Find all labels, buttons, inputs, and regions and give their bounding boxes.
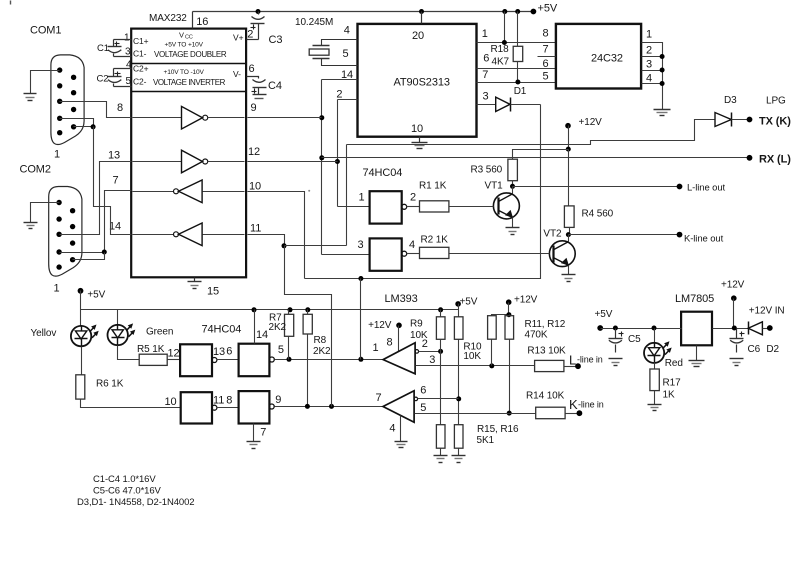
svg-text:V: V xyxy=(179,31,184,40)
svg-text:+10V TO -10V: +10V TO -10V xyxy=(164,69,205,76)
svg-text:1: 1 xyxy=(482,28,488,40)
wire C3 to V+ xyxy=(247,39,259,41)
terminal +12V LM393 xyxy=(396,323,402,329)
svg-text:C1: C1 xyxy=(97,43,109,54)
capacitor C1 xyxy=(113,40,115,47)
svg-text:6: 6 xyxy=(226,346,232,358)
ground C6 xyxy=(730,358,744,360)
svg-text:L: L xyxy=(569,353,576,368)
op LM7805 box xyxy=(681,312,712,346)
wire R3 bottom xyxy=(512,181,514,187)
wire LED green to R5 xyxy=(118,346,140,360)
svg-text:R2 1K: R2 1K xyxy=(421,235,449,246)
wire pin11 net to TX drop xyxy=(285,245,347,247)
svg-text:10K: 10K xyxy=(463,351,481,362)
ground LM7805 xyxy=(689,360,705,362)
COM1 pins xyxy=(57,67,62,72)
svg-text:2: 2 xyxy=(247,29,253,41)
wire D3 to TX xyxy=(732,119,750,121)
wire LED to R17 xyxy=(654,363,656,369)
wire pin6 row xyxy=(477,68,556,70)
svg-text:3: 3 xyxy=(429,354,435,366)
junction R9 top xyxy=(438,307,443,312)
terminal +5V right xyxy=(597,325,603,331)
svg-text:R11, R12: R11, R12 xyxy=(525,319,566,330)
terminal +5V top xyxy=(531,9,537,15)
svg-text:+12V IN: +12V IN xyxy=(749,306,785,317)
svg-text:R17: R17 xyxy=(663,378,682,389)
wire pin2 row xyxy=(338,99,358,101)
svg-text:R8: R8 xyxy=(314,335,327,346)
wire gateA to gateB xyxy=(217,359,239,361)
junction R7 bottom xyxy=(287,357,292,362)
wire pin10 net to LM393 out1 xyxy=(360,279,362,360)
junction C5 xyxy=(613,326,618,331)
wire R13 to L terminal xyxy=(564,366,579,368)
svg-text:V+: V+ xyxy=(233,33,244,43)
svg-text:R14 10K: R14 10K xyxy=(526,391,565,402)
svg-text:10: 10 xyxy=(249,181,261,193)
svg-text:14: 14 xyxy=(341,69,353,81)
svg-text:8: 8 xyxy=(387,337,393,349)
svg-text:7: 7 xyxy=(113,175,119,187)
svg-text:Yellov: Yellov xyxy=(31,328,57,339)
wire LM393 pin4 stem xyxy=(400,416,402,442)
svg-text:3: 3 xyxy=(646,59,652,71)
junction 24C32 pin3 xyxy=(660,68,665,73)
svg-text:8: 8 xyxy=(226,395,232,407)
wire R14 to K terminal xyxy=(566,413,580,415)
ground AT90 pin10 xyxy=(412,142,428,144)
buffer T1 (8->9) xyxy=(133,117,182,119)
transistor VT1 xyxy=(493,193,519,219)
wire RX row xyxy=(322,157,750,159)
ground R17 xyxy=(648,404,662,406)
wire COM2 gnd xyxy=(31,203,60,223)
ground MAX232 pin15 xyxy=(188,281,202,283)
terminal K-line out xyxy=(677,232,683,238)
resistor R16 xyxy=(454,425,463,449)
svg-text:4: 4 xyxy=(646,73,652,85)
wire R8 stubs xyxy=(307,310,309,315)
junction pin11 net xyxy=(282,243,287,248)
svg-text:+5V: +5V xyxy=(460,296,478,307)
svg-text:COM1: COM1 xyxy=(30,25,61,37)
gate A box xyxy=(180,344,212,376)
svg-text:3: 3 xyxy=(125,47,131,58)
wire R9R15 column xyxy=(440,352,442,425)
wire pin2 row xyxy=(419,351,441,353)
svg-text:Red: Red xyxy=(665,358,683,369)
wire +5V top rail xyxy=(193,11,534,13)
gate D bubble xyxy=(269,404,274,409)
svg-text:20: 20 xyxy=(412,30,424,42)
svg-text:10.245M: 10.245M xyxy=(295,17,333,28)
wire VT2 collector stem xyxy=(568,235,570,242)
svg-text:1: 1 xyxy=(124,33,130,44)
wire pin7 drop to COM2 right xyxy=(73,253,105,260)
junction R4 VT2 xyxy=(566,232,571,237)
svg-text:+12V: +12V xyxy=(721,280,745,291)
svg-text:MAX232: MAX232 xyxy=(149,13,187,24)
svg-text:5: 5 xyxy=(343,48,349,60)
junction AT90 pin20 on rail xyxy=(419,9,424,14)
svg-text:K: K xyxy=(569,397,578,412)
resistor R4 xyxy=(564,206,574,228)
wire pin9 row xyxy=(248,117,322,119)
wire gate3 input xyxy=(322,254,370,256)
junction R7 top xyxy=(288,307,293,312)
svg-text:14: 14 xyxy=(256,329,268,341)
wire R16 bottom xyxy=(458,449,460,456)
junction pin7 drop xyxy=(102,250,107,255)
wire MAX232 pin13 to COM2 xyxy=(60,162,132,235)
wire pin14 row xyxy=(322,79,358,81)
ground 24C32 xyxy=(654,109,671,111)
ground LM7805 stem xyxy=(696,346,698,361)
diode D2 xyxy=(748,322,750,335)
wire pin6 row xyxy=(418,398,459,400)
svg-text:TX (K): TX (K) xyxy=(759,116,791,128)
ground VT1 xyxy=(506,227,520,229)
wire L-line out row xyxy=(513,186,680,188)
junction +12V split xyxy=(566,147,571,152)
wire R17 bottom xyxy=(654,391,656,405)
svg-text:RX (L): RX (L) xyxy=(759,153,791,165)
resistor R17 xyxy=(650,369,659,391)
svg-text:7: 7 xyxy=(376,392,382,404)
wire gateD out to LM393 out2 xyxy=(275,406,383,408)
svg-text:9: 9 xyxy=(251,102,257,114)
svg-text:R1 1K: R1 1K xyxy=(419,181,447,192)
svg-text:R4 560: R4 560 xyxy=(582,209,614,220)
svg-text:+5V: +5V xyxy=(595,309,613,320)
wire R12 bottom xyxy=(509,340,511,414)
gate D box xyxy=(239,391,270,423)
svg-text:-line in: -line in xyxy=(577,355,603,365)
stray tick top-left xyxy=(10,1,12,5)
wire R9 stems xyxy=(440,310,442,317)
resistor R12 xyxy=(505,316,514,340)
svg-text:5K1: 5K1 xyxy=(477,435,495,446)
svg-text:12: 12 xyxy=(248,146,260,158)
wire C1 pin3 stub xyxy=(114,56,132,58)
junction R10 pin6 xyxy=(456,396,461,401)
resistor R7 xyxy=(285,314,294,336)
svg-text:C4: C4 xyxy=(268,80,282,92)
junction pin1 row xyxy=(502,40,507,45)
buffer R1 (10->7) xyxy=(133,191,174,193)
wire +5V drop to pin1 row xyxy=(504,12,506,43)
terminal +12V right xyxy=(731,295,737,301)
wire +12V to R3 xyxy=(513,150,569,160)
wire COM1 down to pin14 jog xyxy=(94,127,132,235)
wire pin2 net drop xyxy=(337,100,339,207)
stray dot xyxy=(308,190,310,192)
junction C3 on rail xyxy=(256,9,261,14)
resistor R18 xyxy=(513,46,523,61)
junction R12 top xyxy=(506,312,511,317)
svg-text:5: 5 xyxy=(126,76,132,87)
junction R12 pin5 xyxy=(507,411,512,416)
svg-text:6: 6 xyxy=(420,385,426,397)
terminal L-line in xyxy=(575,363,581,369)
svg-text:9: 9 xyxy=(275,394,281,406)
resistor R2 xyxy=(420,247,449,258)
wire gateD pin7 stem xyxy=(253,424,255,442)
junction R9 R15 pin2 xyxy=(438,349,443,354)
junction R18 on rail xyxy=(515,9,520,14)
junction R8 top xyxy=(305,307,310,312)
svg-text:VOLTAGE DOUBLER: VOLTAGE DOUBLER xyxy=(154,50,227,59)
svg-text:LPG: LPG xyxy=(766,96,786,107)
op MAX232 box xyxy=(131,29,246,278)
MAX232 divider inverter xyxy=(132,91,247,93)
gate B box xyxy=(239,344,270,377)
svg-text:K-line out: K-line out xyxy=(684,234,724,245)
junction 24C32 pin4 xyxy=(660,81,665,86)
wire 24C32 pin2 stub xyxy=(642,56,663,58)
svg-text:10: 10 xyxy=(165,396,177,408)
junction pin10 net branch xyxy=(358,276,363,281)
ground C4 xyxy=(253,94,267,96)
wire R2 to VT2 base xyxy=(449,253,550,255)
resistor R14 xyxy=(536,407,565,419)
svg-text:C3: C3 xyxy=(269,34,283,46)
buffer R2 (11->14) xyxy=(133,234,174,236)
wire LM393 pin8 stem xyxy=(398,326,400,352)
resistor R6 xyxy=(76,375,85,399)
wire gateB out to LM393 out1 xyxy=(275,359,384,361)
comparator U1B bubble xyxy=(414,397,418,401)
svg-text:6: 6 xyxy=(249,63,255,75)
terminal L-line out xyxy=(677,184,683,190)
gate C box xyxy=(181,392,212,423)
svg-text:10: 10 xyxy=(411,123,423,135)
op AT90S2313 box xyxy=(358,24,477,137)
wire +12V right stem xyxy=(733,299,735,329)
junction R11 pin3 xyxy=(489,363,494,368)
svg-text:1: 1 xyxy=(54,283,60,295)
wire R4 bottom xyxy=(569,228,571,235)
svg-text:2K2: 2K2 xyxy=(269,322,287,333)
svg-text:C1-: C1- xyxy=(133,49,147,59)
wire R18 top stem xyxy=(517,12,519,47)
gate 3 box xyxy=(370,238,402,270)
svg-text:1: 1 xyxy=(54,149,60,161)
svg-text:2K2: 2K2 xyxy=(313,346,331,357)
wire red LED stem xyxy=(654,329,656,343)
svg-text:4: 4 xyxy=(389,423,395,435)
svg-text:3: 3 xyxy=(358,239,364,251)
wire crystal to pin5 xyxy=(322,59,358,66)
wire 24C32 pin1 stub xyxy=(642,43,663,110)
junction COM1 pins xyxy=(91,124,96,129)
op 24C32 box xyxy=(556,24,641,89)
svg-text:5: 5 xyxy=(543,71,549,83)
wire pin20 stem xyxy=(421,12,423,24)
terminal +12V mid xyxy=(565,123,571,129)
terminal +5V left xyxy=(78,288,84,294)
svg-text:C2: C2 xyxy=(97,74,109,85)
svg-text:C1-C4 1.0*16V: C1-C4 1.0*16V xyxy=(93,474,156,485)
svg-text:LM393: LM393 xyxy=(385,293,418,305)
gate 1 bubble xyxy=(402,204,407,209)
svg-text:7: 7 xyxy=(543,44,549,56)
terminal +5V LM393 xyxy=(455,301,461,307)
svg-text:+5V TO +10V: +5V TO +10V xyxy=(165,41,204,48)
svg-text:6: 6 xyxy=(483,53,489,65)
wire +12V to R11 R12 xyxy=(492,303,509,316)
terminal TX xyxy=(747,117,753,123)
wire pin14 net drop xyxy=(321,80,323,255)
connector COM1 shell xyxy=(51,55,84,145)
svg-text:8: 8 xyxy=(117,102,123,114)
wire MAX232 pin16 stem xyxy=(192,12,194,29)
svg-text:L-line out: L-line out xyxy=(687,182,726,193)
svg-text:VOLTAGE INVERTER: VOLTAGE INVERTER xyxy=(153,78,226,87)
wire +5V branch row xyxy=(81,309,459,311)
wire R6 to gate C xyxy=(81,400,181,408)
junction pin14 net at RX row xyxy=(319,155,324,160)
wire +5V stub xyxy=(458,304,460,310)
svg-text:CC: CC xyxy=(185,35,193,41)
svg-text:1K: 1K xyxy=(663,390,675,401)
ground LM393 pin4 xyxy=(395,441,408,443)
wire 24C32 pin3 stub xyxy=(642,70,663,72)
wire MAX232 pin7 to COM2 xyxy=(60,191,132,253)
ground COM1 xyxy=(24,93,37,95)
svg-text:VT2: VT2 xyxy=(543,229,562,240)
svg-text:10K: 10K xyxy=(410,330,428,341)
wire pin11 row out xyxy=(248,235,285,246)
ground VT2 xyxy=(562,274,576,276)
svg-text:C6: C6 xyxy=(748,344,761,355)
wire R7 stubs xyxy=(288,337,290,360)
wire R18 bottom stem xyxy=(517,62,519,83)
svg-text:C5: C5 xyxy=(628,334,641,345)
svg-text:16: 16 xyxy=(196,16,208,28)
svg-text:1: 1 xyxy=(373,342,379,354)
resistor R13 xyxy=(535,360,564,371)
wire D1 to drop xyxy=(511,104,541,106)
svg-text:+12V: +12V xyxy=(579,117,603,128)
junction R8 bottom xyxy=(305,404,310,409)
connector COM2 shell xyxy=(49,187,82,277)
wire pin3 row xyxy=(416,365,535,367)
wire R4 column xyxy=(568,150,570,206)
wire D1 net drop xyxy=(305,105,541,279)
svg-text:+12V: +12V xyxy=(514,295,538,306)
wire D2 to terminal xyxy=(763,328,770,330)
svg-text:C5-C6 47.0*16V: C5-C6 47.0*16V xyxy=(93,486,162,497)
wire C1 pin1 stub xyxy=(114,39,132,41)
wire V- to C4 xyxy=(247,77,259,79)
resistor R5 xyxy=(139,354,167,365)
svg-text:AT90S2313: AT90S2313 xyxy=(394,77,450,89)
wire +5V stem to LED1 xyxy=(80,291,82,326)
wire pin11 net jog down xyxy=(285,246,332,407)
wire pin1 to 24C32 pin8 xyxy=(477,42,556,44)
svg-text:D3,D1- 1N4558, D2-1N4002: D3,D1- 1N4558, D2-1N4002 xyxy=(77,497,194,508)
wire COM1 gnd xyxy=(31,71,60,94)
wire R15 bottom xyxy=(440,449,442,456)
terminal +12V IN xyxy=(767,325,773,331)
wire pin7 row xyxy=(477,82,556,84)
resistor R11 xyxy=(488,316,497,340)
resistor R1 xyxy=(420,201,449,212)
capacitor C4 xyxy=(253,80,266,83)
svg-text:2: 2 xyxy=(646,45,652,57)
LED red xyxy=(644,343,664,363)
svg-text:LM7805: LM7805 xyxy=(675,293,714,305)
MAX232 divider doubler xyxy=(132,63,247,65)
resistor R3 xyxy=(508,159,518,181)
svg-text:5: 5 xyxy=(420,402,426,414)
transistor VT2 xyxy=(549,241,575,267)
wire gateC to gateD xyxy=(217,407,239,409)
comparator U1A xyxy=(383,343,415,374)
wire R12 top stub xyxy=(509,315,511,316)
svg-text:12: 12 xyxy=(168,348,180,360)
svg-text:1: 1 xyxy=(359,192,365,204)
wire gate1 input xyxy=(338,206,370,208)
junction pin14 net at pin9 row xyxy=(319,115,324,120)
svg-text:74HC04: 74HC04 xyxy=(363,167,403,179)
svg-text:11: 11 xyxy=(250,223,261,235)
wire 74HC04 pin14 stem xyxy=(254,310,256,344)
junction R18 on pin7 row xyxy=(515,80,520,85)
svg-text:-line in: -line in xyxy=(578,400,604,410)
svg-text:C2+: C2+ xyxy=(133,64,149,74)
ground COM2 xyxy=(24,222,38,224)
crystal X1 xyxy=(313,45,330,47)
COM2 pins xyxy=(56,200,61,205)
svg-text:R9: R9 xyxy=(410,319,423,330)
svg-text:R15, R16: R15, R16 xyxy=(477,424,519,435)
svg-text:D3: D3 xyxy=(724,95,737,106)
wire +12V stem xyxy=(568,126,570,150)
capacitor C3 xyxy=(258,12,260,15)
terminal K-line in xyxy=(577,410,583,416)
svg-text:11: 11 xyxy=(213,395,224,407)
svg-text:4: 4 xyxy=(409,239,415,251)
wire pin10 row out xyxy=(248,192,305,279)
wire LM7805 to D2 xyxy=(713,328,749,330)
junction pin1 pullup on rail xyxy=(502,9,507,14)
junction R3 VT1 xyxy=(510,184,515,189)
svg-text:VT1: VT1 xyxy=(485,181,504,192)
svg-text:15: 15 xyxy=(207,286,219,298)
svg-text:+12V: +12V xyxy=(368,320,392,331)
wire gate1 to R1 xyxy=(407,206,420,208)
resistor R10 xyxy=(454,317,463,340)
svg-text:R6 1K: R6 1K xyxy=(96,379,124,390)
svg-text:5: 5 xyxy=(278,344,284,356)
capacitor C5 xyxy=(615,329,617,339)
junction LM393 out1 branch xyxy=(358,357,363,362)
wire C2 pin4 stub xyxy=(114,68,132,70)
junction 24C32 pin2 xyxy=(660,54,665,59)
wire COM1 right pin xyxy=(74,126,94,128)
LED yellow xyxy=(71,326,91,346)
ground C5 xyxy=(609,358,623,360)
svg-text:74HC04: 74HC04 xyxy=(202,324,242,336)
svg-text:C2-: C2- xyxy=(133,77,147,87)
svg-text:R13 10K: R13 10K xyxy=(527,346,566,357)
svg-text:3: 3 xyxy=(483,90,489,102)
wire 5V row to LM7805 xyxy=(601,328,682,330)
